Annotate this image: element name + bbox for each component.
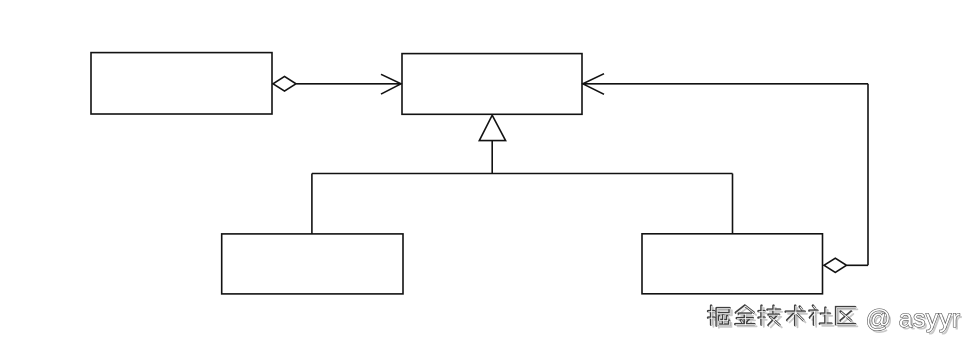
wire drop to bottom-left box [311, 174, 313, 235]
watermark cjk dark outline [708, 306, 855, 326]
watermark cjk shadow light [710, 308, 857, 328]
class box bottom-right [642, 234, 823, 294]
wire into right diamond [847, 264, 869, 266]
svg-text:@ asyyr: @ asyyr [866, 305, 961, 333]
watermark 掘金技术社区 (embossed, drawn as paths) [708, 305, 963, 335]
aggregation diamond left [273, 77, 296, 92]
association wire left-to-center [296, 83, 401, 85]
wire right vertical [867, 84, 869, 265]
class box top-center [402, 54, 582, 115]
open arrowhead into center box left [381, 74, 401, 94]
wire triangle stem [491, 141, 493, 174]
inheritance triangle [479, 115, 505, 140]
open arrowhead into center box right [583, 74, 604, 95]
class box bottom-left [222, 234, 403, 294]
wire horizontal distribution [312, 173, 733, 175]
aggregation diamond right [824, 258, 847, 272]
association wire right-to-center [583, 83, 869, 85]
class box top-left [91, 53, 272, 114]
wire drop to bottom-right box [732, 174, 734, 235]
watermark cjk white core [709, 306, 856, 326]
